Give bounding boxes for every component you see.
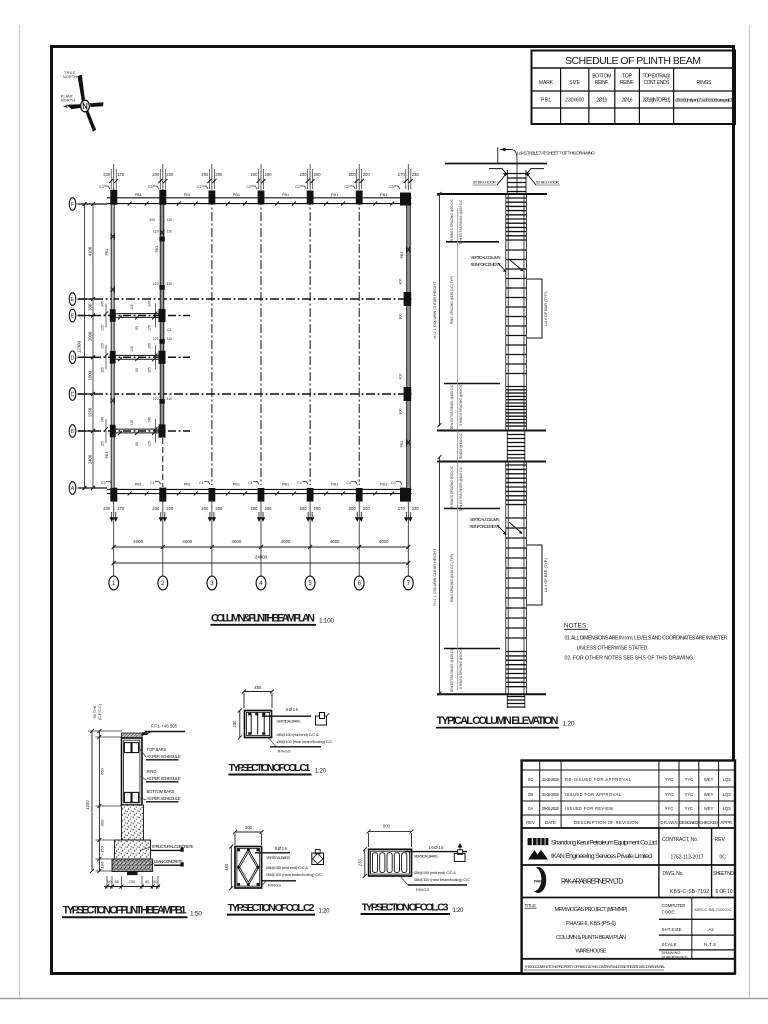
svg-text:4100: 4100 [88,246,93,256]
parco section divider [522,897,735,899]
svg-text:STRUCTURAL CONCRETE: STRUCTURAL CONCRETE [152,844,194,849]
wall opening labels grid 2 [153,230,172,402]
intermediate wall columns on grid 2 [159,237,164,404]
svg-text:PB1: PB1 [233,483,240,487]
lower column top level line [437,461,546,463]
svg-text:TOP EXTRA @: TOP EXTRA @ [643,74,671,80]
svg-text:LEAN CONCRETE: LEAN CONCRETE [154,859,183,864]
svg-text:REINF.: REINF. [595,80,609,86]
svg-text:4000: 4000 [133,539,143,544]
svg-text:0C: 0C [720,855,727,861]
svg-text:5: 5 [308,580,312,587]
svg-text:200: 200 [265,172,273,177]
beam ring (inner line) [124,740,140,803]
north arrow circle [81,100,90,112]
svg-text:NORTH: NORTH [63,75,77,79]
c2 key icon [315,850,320,855]
revision table column lines [540,761,719,829]
svg-text:H=2.1 COLUMN CLEAR HEIGHT: H=2.1 COLUMN CLEAR HEIGHT [433,281,437,339]
ring zone divider lower-top [444,508,500,510]
svg-text:6: 6 [357,580,361,587]
top column size labels row F [103,172,419,177]
svg-text:200: 200 [349,506,357,511]
svg-text:REINF.: REINF. [620,80,634,86]
svg-text:C3: C3 [99,185,104,189]
svg-text:01. ALL DIMENSIONS ARE IN mm,: 01. ALL DIMENSIONS ARE IN mm, LEVELS AND… [565,636,728,642]
svg-text:C1: C1 [150,481,155,485]
svg-text:PB1: PB1 [105,452,109,459]
svg-text:450: 450 [254,685,262,690]
column bubble 4 [256,576,266,590]
svg-text:8Ø16: 8Ø16 [275,846,288,851]
svg-text:200: 200 [166,172,174,177]
svg-text:SCALE: SCALE [662,942,677,947]
columns grid 2 rows E2 D B [159,309,166,438]
svg-text:200: 200 [314,506,322,511]
svg-text:PB1: PB1 [184,193,191,197]
revision row 0B [528,792,731,797]
svg-text:170: 170 [398,506,406,511]
column bubble 5 [305,576,315,590]
svg-text:200: 200 [251,506,259,511]
row bubble D [69,351,76,364]
svg-text:REINFORCEMENT: REINFORCEMENT [471,262,501,267]
svg-text:SHEET NO: SHEET NO [713,871,734,877]
svg-text:118: 118 [130,304,134,309]
svg-text:170: 170 [398,172,406,177]
plinth beam row E2 grid1-grid2 (double line) [111,314,164,318]
c1 vertical bars [251,714,264,735]
svg-text:Ø8@100 (near beam/footing) C/C: Ø8@100 (near beam/footing) C/C [414,877,470,882]
svg-text:C2: C2 [197,185,202,189]
svg-text:PB1: PB1 [380,483,387,487]
svg-text:50 THK: 50 THK [93,705,97,718]
svg-text:F.F.L +48.505: F.F.L +48.505 [151,724,178,729]
svg-text:REV: REV [526,820,535,825]
svg-text:80: 80 [115,880,119,884]
schedule table header row line [532,90,736,92]
svg-text:230: 230 [358,859,363,867]
svg-text:YYC: YYC [665,806,674,811]
ring zone divider upper-bottom [444,383,500,385]
svg-text:120: 120 [101,325,105,331]
upper column rails [506,194,527,431]
left overall dimension line 12300 [84,204,86,488]
middle zone rails [507,431,525,462]
wall label 100 110 grid2 top [149,218,172,222]
schedule table title row line [532,67,736,69]
rotated PB1 labels on vertical beams [105,246,404,459]
columns grid 7 rows E C [404,292,412,401]
svg-text:Ø8@100 (near beam/footing) C/C: Ø8@100 (near beam/footing) C/C [277,739,333,744]
svg-text:TOP BARS: TOP BARS [147,747,167,752]
svg-text:THIS DOCUMENT IS THE PROPERTY: THIS DOCUMENT IS THE PROPERTY OF PARCO &… [525,964,666,969]
svg-text:3: 3 [210,580,214,587]
svg-text:1: 1 [112,580,116,587]
svg-text:1:20: 1:20 [453,908,465,914]
column mark hooks row A [106,482,402,485]
svg-text:RING SPACING @150 C/C (TYP.): RING SPACING @150 C/C (TYP.) [450,276,454,324]
row bubble leader lines (left) [78,204,108,488]
column bubble 6 [354,576,364,590]
top stub ties [507,174,526,192]
svg-text:PB1: PB1 [400,441,404,448]
left dimension ticks [83,202,96,490]
svg-text:TYP. SECTION OF COL. C3: TYP. SECTION OF COL. C3 [362,901,449,913]
bottom bay dimension line [114,546,409,548]
svg-text:COLUMN & PLINTH BEAM PLAN: COLUMN & PLINTH BEAM PLAN [211,613,315,625]
bottom stub ties [507,697,525,708]
top column mark hooks row F [104,186,400,189]
svg-text:APPR.: APPR. [721,820,734,825]
lower column ties dense bottom zone [506,652,527,687]
svg-text:TYP. SECTION OF COL. C2: TYP. SECTION OF COL. C2 [228,902,315,914]
svg-text:C3: C3 [389,185,394,189]
grid line 7 top and bottom stubs [407,164,409,190]
top stub column rails [507,170,526,194]
grid line 3 (vertical centerline) [211,196,213,485]
c3 section outline [369,849,412,876]
column bubble 2 [158,576,168,590]
svg-text:WEY: WEY [704,806,714,811]
svg-text:170: 170 [117,506,125,511]
svg-text:KBS-C-SB-7102-0C: KBS-C-SB-7102-0C [695,907,732,912]
svg-text:CHECKED: CHECKED [699,820,718,825]
schedule table column lines [561,68,674,124]
svg-text:50: 50 [107,880,111,884]
double leader arrows under row A columns [110,512,412,521]
svg-text:200: 200 [152,506,160,511]
svg-text:800: 800 [383,823,391,828]
svg-text:(C.P.C.C): (C.P.C.C) [98,703,102,720]
svg-text:1:20: 1:20 [563,720,575,727]
svg-text:VERTICAL COLUMN: VERTICAL COLUMN [471,255,501,260]
svg-text:C1: C1 [346,481,351,485]
svg-text:AS PER SCHEDULE: AS PER SCHEDULE [147,754,181,759]
svg-text:CONTRACT, No.: CONTRACT, No. [662,837,698,843]
svg-text:1950: 1950 [88,407,93,417]
short beam row E2 dimension labels [101,301,152,331]
svg-text:200: 200 [201,506,209,511]
svg-text:TITLE:: TITLE: [525,903,537,908]
svg-text:118: 118 [130,420,134,425]
svg-text:12300: 12300 [77,340,82,353]
svg-text:340: 340 [148,417,152,423]
svg-text:C2: C2 [344,185,349,189]
svg-text:200: 200 [166,506,174,511]
svg-text:150: 150 [100,845,105,852]
top column extension lines row F [111,169,411,189]
c2 bars leader and label [255,852,290,854]
svg-text:Shandong Kerui Petroleum Equip: Shandong Kerui Petroleum Equipment Co.,L… [551,840,658,847]
bottom stub rails [507,694,525,709]
revision row 0A [528,806,731,811]
c2 ring inner line [237,848,260,886]
pb1 left overall dim line 1200 [90,729,94,873]
svg-text:4000: 4000 [232,539,242,544]
plinth beam along grid 2 (double line) [160,198,164,437]
svg-text:120: 120 [153,282,159,286]
svg-text:340: 340 [101,301,105,307]
svg-text:1:20: 1:20 [315,769,327,775]
svg-text:4: 4 [259,580,263,587]
svg-text:21-03-2018: 21-03-2018 [542,777,560,782]
svg-text:Ø8@100 (near beam/footing) C/C: Ø8@100 (near beam/footing) C/C [266,872,322,877]
plinth beam PB1 along row A (double line) [107,489,412,493]
svg-text:150: 150 [101,343,105,349]
svg-text:PB1: PB1 [380,193,387,197]
svg-text:120: 120 [148,325,152,331]
KERUI logo [528,838,549,845]
svg-text:AS PER SCHEDULE: AS PER SCHEDULE [147,776,181,781]
svg-text:PB1: PB1 [282,193,289,197]
svg-text:150: 150 [148,343,152,349]
svg-text:6Ø16: 6Ø16 [286,707,299,712]
company section dividers [522,864,735,866]
page edge bottom [0,998,768,1000]
svg-text:COLUMN & PLINTH BEAM PLAN: COLUMN & PLINTH BEAM PLAN [556,935,626,941]
bottom overall dimension line 24000 [114,562,409,564]
svg-text:200: 200 [152,172,160,177]
svg-text:SCHEDULE OF PLINTH BEAM: SCHEDULE OF PLINTH BEAM [565,55,701,67]
bottom extension lines from columns to bubbles [212,164,359,190]
svg-text:90: 90 [135,326,139,330]
svg-text:120: 120 [153,397,159,401]
reinforcement leader arrows upper [498,260,522,271]
svg-text:C1: C1 [199,481,204,485]
plinth beam along grid 7 (double line) [407,198,411,494]
svg-text:110: 110 [167,337,173,341]
svg-text:YYC: YYC [685,806,694,811]
svg-text:Ld AS TABLE 7 AT SHEET 7 OF TH: Ld AS TABLE 7 AT SHEET 7 OF THIS DRAWING [517,151,595,157]
row bubble E [69,293,76,306]
middle zone ties [507,435,525,459]
svg-text:UNLESS OTHERWISE STATED.: UNLESS OTHERWISE STATED. [577,646,649,652]
north arrow east blade [90,102,104,107]
svg-text:TYPICAL COLUMN ELEVATION: TYPICAL COLUMN ELEVATION [437,715,559,727]
svg-text:340: 340 [148,301,152,307]
svg-text:Ø8@150 (mid end) C/C &: Ø8@150 (mid end) C/C & [266,865,308,870]
svg-text:COMPUTER: COMPUTER [662,903,686,908]
c3 bars leader and label [405,851,467,853]
svg-text:Ø8@150 (mid end) C/C &: Ø8@150 (mid end) C/C & [277,732,319,737]
svg-text:4000: 4000 [379,539,389,544]
svg-text:PARCO: PARCO [534,880,545,884]
IKAN logo [528,850,548,860]
svg-text:200: 200 [363,172,371,177]
row bubble E lower [69,309,76,322]
short beam side dimension lines [106,304,156,444]
svg-text:0C: 0C [528,777,533,782]
top bars [124,743,131,753]
upper column ties middle zone [506,250,527,374]
svg-text:90: 90 [135,368,139,372]
grid row E centerline [78,298,412,300]
svg-text:2Ø16(INTO PB1): 2Ø16(INTO PB1) [643,98,671,104]
column bubble 3 [207,576,217,590]
page edge right [749,25,751,998]
svg-text:A: A [71,486,75,492]
svg-text:CONT. ENDS: CONT. ENDS [644,80,671,86]
svg-text:RING: RING [147,769,157,774]
north arrow true-north blade [78,75,86,101]
svg-text:8 RINGS SPACING @50 C/C: 8 RINGS SPACING @50 C/C [450,465,454,507]
svg-text:100: 100 [100,861,105,868]
svg-text:200: 200 [251,172,259,177]
svg-text:VERTICAL BARS: VERTICAL BARS [266,855,290,860]
svg-text:N.T.S: N.T.S [704,942,716,947]
svg-text:TYP. SECTION OF COL. C1: TYP. SECTION OF COL. C1 [229,762,311,774]
beam PB1 labels row A [135,483,388,487]
c2 diamond ring inner [240,852,257,882]
svg-text:VERTICAL BARS: VERTICAL BARS [277,719,301,724]
grid line 4 (vertical centerline) [260,196,262,485]
lower column ties dense top zone [506,465,527,505]
svg-text:50% EXTRA RINGS @100 C/C: 50% EXTRA RINGS @100 C/C [450,647,454,692]
bottom bars [124,792,131,802]
svg-text:170: 170 [117,172,125,177]
north arrow west blade [67,104,81,109]
svg-text:200: 200 [215,172,223,177]
svg-text:365: 365 [101,367,105,373]
svg-text:80: 80 [145,880,149,884]
svg-text:2: 2 [161,580,165,587]
svg-text:7: 7 [407,580,411,587]
svg-text:50% EXTRA RINGS @100 C/C: 50% EXTRA RINGS @100 C/C [450,384,454,429]
top floor level line [445,163,547,165]
short beam tick marks [118,316,156,436]
grid line 5 (vertical centerline) [309,196,311,485]
svg-text:PB1: PB1 [282,483,289,487]
svg-text:1900: 1900 [88,331,93,341]
svg-text:PB1: PB1 [331,483,338,487]
svg-text:AS PER SCHEDULE: AS PER SCHEDULE [147,796,181,801]
svg-text:8 RINGS SPACING @50 C/C: 8 RINGS SPACING @50 C/C [459,383,463,425]
lower column ties middle zone [506,518,527,638]
svg-text:4000: 4000 [330,539,340,544]
svg-text:E: E [71,297,75,303]
reinforcement leader arrows lower [497,522,521,533]
svg-text:400: 400 [399,374,403,380]
row bubble A [69,482,76,495]
svg-text:90: 90 [135,442,139,446]
svg-text:D: D [71,356,75,362]
svg-text:C3: C3 [101,481,106,485]
wall band along grid 7 [407,202,410,487]
svg-text:110: 110 [167,218,173,222]
svg-text:NORTH: NORTH [61,98,75,102]
svg-text:200: 200 [314,172,322,177]
row bubble F [69,198,76,211]
svg-text:E: E [71,314,75,320]
north arrow west arrowhead [63,105,68,108]
svg-text:2Ø16: 2Ø16 [596,98,607,104]
svg-text:118: 118 [130,346,134,351]
short beam row D dimension labels [101,343,152,373]
svg-text:400: 400 [399,409,403,415]
svg-text:C3: C3 [391,481,396,485]
bottom black pad [127,872,138,876]
svg-text:110: 110 [167,282,173,286]
c3 key icon [458,844,461,851]
c2 section outline [235,847,262,889]
svg-text:LQS: LQS [723,806,732,811]
confidential strip [522,958,735,960]
svg-text:RINGS: RINGS [697,80,713,86]
svg-text:50 BIG HOOK: 50 BIG HOOK [473,180,496,185]
beam outline [122,738,143,805]
svg-text:TYP. SECTION OF PLINTH BEAM PB: TYP. SECTION OF PLINTH BEAM PB1 [63,905,187,917]
svg-text:120: 120 [153,230,159,234]
ring spacing reference line [457,208,459,690]
svg-text:Ld # OF BAR (TYP.): Ld # OF BAR (TYP.) [544,291,548,326]
svg-text:PB1: PB1 [541,98,551,104]
svg-text:WEY: WEY [704,792,714,797]
columns grid 1 rows E2 D B [110,309,116,437]
grid row B centerline stub [78,430,190,432]
pb1 left chain dim line [97,729,101,873]
svg-text:400: 400 [399,279,403,285]
svg-text:ISSUED FOR REVIEW: ISSUED FOR REVIEW [565,806,613,811]
svg-text:MFM MOGAS PROJECT (MFMMP): MFM MOGAS PROJECT (MFMMP) [555,907,628,913]
svg-text:50: 50 [153,880,157,884]
row bubble B [69,425,76,438]
svg-text:200: 200 [215,506,223,511]
wall band along grid 1 [112,205,114,487]
svg-text:230: 230 [103,506,111,511]
left dimension chain line [92,204,94,488]
svg-text:YYC: YYC [665,792,674,797]
svg-text:24000: 24000 [255,555,268,560]
svg-text:400: 400 [399,314,403,320]
schedule of plinth beam table outer frame [532,51,736,125]
revision row 0C [528,777,731,782]
svg-text:PB1: PB1 [233,193,240,197]
svg-text:21-02-2018: 21-02-2018 [542,792,560,797]
svg-text:50 BIG HOOK: 50 BIG HOOK [536,180,559,185]
svg-text:Ld # OF BAR (TYP.): Ld # OF BAR (TYP.) [544,557,548,592]
schedule table data row line [532,107,736,109]
Ld bar bracket lower [527,545,542,605]
c1 ring inner line [246,712,269,735]
svg-text:NOTES:: NOTES: [564,623,588,630]
short beam row B dimension labels [101,417,152,447]
plinth beam along grid 1 (double line) [111,198,114,494]
revision table bottom line [522,827,735,829]
svg-text:8 RINGS SPACING @50 C/C: 8 RINGS SPACING @50 C/C [450,198,454,240]
svg-text:C1: C1 [248,481,253,485]
svg-text:6 OF 10: 6 OF 10 [716,889,733,895]
svg-text:WAREHOUSE: WAREHOUSE [576,949,607,955]
right info grid lines [659,919,735,950]
columns row A [110,488,411,502]
pb1 bottom dim chain [107,876,158,889]
svg-text:110: 110 [167,230,173,234]
svg-text:100: 100 [149,218,155,222]
upper column ties dense bottom zone [506,387,527,427]
svg-text:2Ø16: 2Ø16 [622,98,633,104]
svg-text:C2: C2 [246,185,251,189]
svg-text:VERTICAL COLUMN: VERTICAL COLUMN [470,517,500,522]
svg-text:B: B [71,429,75,435]
svg-text:PB1: PB1 [135,483,142,487]
svg-text:200: 200 [349,172,357,177]
svg-text:YYC: YYC [685,792,694,797]
column size labels grid 7 [399,279,403,415]
svg-text:DESCRIPTION OF REVISION: DESCRIPTION OF REVISION [574,820,638,825]
svg-text:CODE:: CODE: [662,910,676,915]
svg-text:PB1: PB1 [155,246,159,253]
